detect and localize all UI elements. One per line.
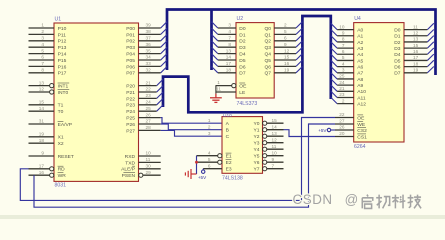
bus entries U2 Q0-Q7 — [296, 22, 302, 73]
svg-text:35: 35 — [146, 48, 152, 53]
svg-text:CSDN: CSDN — [293, 192, 333, 207]
svg-text:23: 23 — [146, 93, 152, 98]
svg-text:P17: P17 — [58, 71, 67, 77]
svg-text:P21: P21 — [126, 90, 135, 96]
U2 Q pin names — [264, 26, 271, 77]
bus entries P2.0-P2.4 to address bus — [157, 79, 163, 111]
svg-text:+5V: +5V — [318, 128, 327, 133]
U4 data pin wires — [404, 30, 427, 73]
svg-text:P11: P11 — [58, 32, 67, 38]
svg-text:A4: A4 — [357, 52, 363, 58]
svg-text:D0: D0 — [394, 28, 401, 34]
svg-text:10: 10 — [272, 150, 278, 155]
svg-text:8031: 8031 — [55, 183, 67, 189]
svg-text:13: 13 — [39, 80, 45, 85]
wire P2.7 to U10 C — [161, 130, 222, 136]
svg-text:TXD: TXD — [125, 160, 135, 166]
svg-text:CS1: CS1 — [357, 134, 367, 140]
svg-text:19: 19 — [284, 68, 290, 73]
svg-text:38: 38 — [146, 29, 152, 34]
svg-text:E1: E1 — [226, 154, 232, 160]
svg-text:4: 4 — [342, 61, 345, 66]
svg-text:27: 27 — [146, 119, 152, 124]
svg-text:P04: P04 — [126, 52, 135, 58]
svg-text:28: 28 — [146, 125, 152, 130]
svg-text:1: 1 — [41, 23, 44, 28]
svg-text:A9: A9 — [357, 83, 363, 89]
svg-text:12: 12 — [284, 48, 290, 53]
svg-text:12: 12 — [413, 30, 419, 35]
bottom band — [0, 215, 445, 219]
svg-text:Q7: Q7 — [264, 71, 271, 77]
wire U2 OE-LE tie — [215, 86, 217, 92]
svg-text:Q6: Q6 — [264, 64, 271, 70]
svg-text:P25: P25 — [126, 116, 135, 122]
svg-text:Q5: Q5 — [264, 58, 271, 64]
svg-text:Y1: Y1 — [254, 128, 260, 134]
svg-text:P15: P15 — [58, 58, 67, 64]
U10 Y pin numbers — [272, 118, 278, 168]
svg-text:1: 1 — [208, 118, 211, 123]
svg-text:Y2: Y2 — [254, 134, 260, 140]
svg-text:A11: A11 — [357, 95, 366, 101]
svg-text:D3: D3 — [394, 46, 401, 52]
svg-text:Q3: Q3 — [264, 45, 271, 51]
svg-text:P13: P13 — [58, 45, 67, 51]
svg-text:6: 6 — [208, 163, 211, 168]
U10 pin E3 — [203, 163, 232, 172]
svg-text:Q2: Q2 — [264, 39, 271, 45]
svg-text:15: 15 — [284, 55, 290, 60]
svg-text:Y0: Y0 — [254, 121, 260, 127]
label U1 part number 8031 — [55, 183, 67, 189]
svg-text:A1: A1 — [357, 34, 363, 40]
svg-text:26: 26 — [146, 112, 152, 117]
svg-text:U2: U2 — [237, 16, 244, 22]
svg-text:29: 29 — [146, 170, 152, 175]
svg-text:19: 19 — [39, 132, 45, 137]
svg-text:A3: A3 — [357, 46, 363, 52]
U2 Q pin numbers — [284, 23, 290, 73]
U4 control pin names — [357, 115, 367, 140]
U1 left pin numbers — [39, 23, 45, 175]
U4 data pin numbers — [413, 24, 419, 72]
svg-text:14: 14 — [39, 106, 45, 111]
svg-text:32: 32 — [146, 68, 152, 73]
U2 D pin numbers — [226, 23, 232, 73]
wire P2.5 to U10 A — [161, 118, 222, 124]
ground at U2 LE — [210, 92, 222, 102]
ground at U10 E1 E2 — [185, 169, 196, 179]
svg-text:A8: A8 — [357, 77, 363, 83]
svg-text:INT1: INT1 — [58, 84, 69, 90]
svg-text:33: 33 — [146, 61, 152, 66]
U2 Q pin wires — [274, 28, 296, 73]
svg-text:15: 15 — [413, 43, 419, 48]
svg-text:18: 18 — [226, 68, 232, 73]
label U4 refdes — [354, 16, 361, 22]
svg-text:16: 16 — [413, 49, 419, 54]
svg-text:LE: LE — [239, 90, 246, 96]
U2 pin LE — [216, 87, 247, 96]
svg-text:74LS138: 74LS138 — [222, 175, 243, 181]
watermark chinese char qi — [362, 195, 373, 209]
svg-text:D6: D6 — [394, 65, 401, 71]
svg-text:D3: D3 — [239, 45, 246, 51]
wire E1-E2 tie to ground — [196, 156, 198, 174]
svg-text:D7: D7 — [394, 71, 401, 77]
wire RD to 6264 OE — [20, 118, 335, 201]
svg-text:37: 37 — [146, 36, 152, 41]
label U4 part number 6264 — [354, 144, 366, 150]
watermark CSDN text — [293, 192, 359, 207]
label U1 refdes — [55, 17, 62, 23]
svg-text:P03: P03 — [126, 45, 135, 51]
svg-text:P14: P14 — [58, 52, 67, 58]
U4 data pin names — [394, 28, 401, 77]
svg-text:22: 22 — [146, 87, 152, 92]
svg-text:6: 6 — [41, 55, 44, 60]
svg-text:18: 18 — [413, 61, 419, 66]
svg-text:13: 13 — [226, 48, 232, 53]
power +5V at U10 E3 — [198, 169, 207, 180]
svg-text:27: 27 — [339, 119, 345, 124]
svg-text:8: 8 — [41, 68, 44, 73]
U1 right pin wires — [139, 28, 161, 177]
IC U4 6264 body — [354, 23, 404, 142]
svg-text:20: 20 — [339, 131, 345, 136]
bus entries U4 D0-D7 — [427, 23, 433, 72]
svg-text:19: 19 — [413, 67, 419, 72]
svg-text:D0: D0 — [239, 26, 246, 32]
svg-text:12: 12 — [272, 137, 278, 142]
svg-text:D4: D4 — [239, 52, 246, 58]
U4 address pin numbers — [339, 24, 345, 103]
svg-text:WR: WR — [58, 173, 67, 179]
U2 pin OE — [216, 80, 248, 89]
svg-text:4: 4 — [41, 42, 44, 47]
svg-text:7: 7 — [342, 43, 345, 48]
svg-text:D2: D2 — [394, 40, 401, 46]
svg-text:P01: P01 — [126, 32, 135, 38]
svg-text:7: 7 — [228, 36, 231, 41]
bus entries U2 D0-D7 — [212, 22, 218, 73]
svg-text:4: 4 — [208, 150, 211, 155]
svg-text:P23: P23 — [126, 103, 135, 109]
svg-text:18: 18 — [39, 138, 45, 143]
svg-text:4: 4 — [228, 29, 231, 34]
svg-text:T0: T0 — [58, 109, 64, 115]
svg-text:13: 13 — [272, 131, 278, 136]
label U2 refdes — [237, 16, 244, 22]
svg-text:7: 7 — [272, 163, 275, 168]
svg-text:16: 16 — [39, 170, 45, 175]
svg-text:9: 9 — [342, 30, 345, 35]
bus entries U4 A0-A12 — [331, 23, 337, 103]
svg-text:6: 6 — [284, 36, 287, 41]
svg-text:3: 3 — [228, 23, 231, 28]
U10 ABC pin numbers — [208, 118, 211, 136]
svg-text:23: 23 — [339, 92, 345, 97]
svg-text:Q4: Q4 — [264, 52, 271, 58]
watermark chinese char ke — [392, 195, 405, 209]
label U10 refdes — [223, 113, 232, 119]
U1 right pin names — [121, 26, 135, 179]
svg-text:Q1: Q1 — [264, 32, 271, 38]
svg-text:25: 25 — [146, 106, 152, 111]
svg-text:31: 31 — [39, 119, 45, 124]
svg-text:9: 9 — [284, 42, 287, 47]
svg-text:INT0: INT0 — [58, 90, 69, 96]
svg-text:17: 17 — [413, 55, 419, 60]
U1 left pin names — [58, 26, 74, 179]
U4 control pin wires — [335, 118, 354, 137]
svg-text:A2: A2 — [357, 40, 363, 46]
svg-text:5: 5 — [208, 157, 211, 162]
svg-text:9: 9 — [272, 157, 275, 162]
wire Y1 to 6264 CS1 — [284, 130, 336, 137]
watermark chinese char chu — [376, 195, 389, 209]
svg-text:P26: P26 — [126, 122, 135, 128]
svg-text:U10: U10 — [223, 113, 232, 119]
IC U1 8031 body — [54, 23, 139, 181]
svg-text:OE: OE — [357, 115, 365, 121]
svg-text:14: 14 — [272, 124, 278, 129]
svg-text:1: 1 — [217, 80, 220, 85]
svg-text:A0: A0 — [357, 28, 363, 34]
svg-text:36: 36 — [146, 42, 152, 47]
svg-text:E2: E2 — [226, 160, 232, 166]
svg-text:WE: WE — [357, 122, 366, 128]
wire P2.6 to U10 B — [161, 124, 222, 130]
U1 right pin numbers — [146, 23, 152, 175]
svg-text:15: 15 — [272, 118, 278, 123]
svg-text:22: 22 — [339, 112, 345, 117]
label U10 part number 74LS138 — [222, 175, 243, 181]
svg-text:15: 15 — [39, 100, 45, 105]
svg-text:T1: T1 — [58, 103, 64, 109]
svg-text:Y6: Y6 — [254, 160, 260, 166]
svg-text:B: B — [226, 128, 229, 134]
svg-text:21: 21 — [339, 86, 345, 91]
U10 pin E1 — [197, 150, 232, 159]
svg-text:C: C — [226, 134, 230, 140]
svg-text:P22: P22 — [126, 96, 135, 102]
svg-text:D7: D7 — [239, 71, 246, 77]
IC U10 74LS138 body — [222, 117, 263, 174]
U2 D pin names — [239, 26, 246, 77]
svg-text:X2: X2 — [58, 141, 64, 147]
U4 control pin numbers — [339, 112, 345, 136]
svg-text:3: 3 — [41, 36, 44, 41]
svg-text:E3: E3 — [226, 167, 232, 173]
svg-text:OE: OE — [239, 84, 247, 90]
svg-text:P05: P05 — [126, 58, 135, 64]
svg-text:D5: D5 — [239, 58, 246, 64]
svg-text:A7: A7 — [357, 71, 363, 77]
wire WR to 6264 WE — [34, 124, 335, 207]
U4 address pin names — [357, 28, 366, 108]
svg-text:39: 39 — [146, 23, 152, 28]
svg-text:11: 11 — [272, 144, 277, 149]
U4 address pin wires — [337, 30, 354, 104]
svg-text:RESET: RESET — [58, 154, 74, 160]
svg-text:U1: U1 — [55, 17, 62, 23]
svg-text:8: 8 — [228, 42, 231, 47]
svg-text:P12: P12 — [58, 39, 67, 45]
svg-text:6: 6 — [342, 49, 345, 54]
svg-text:8: 8 — [342, 37, 345, 42]
watermark chinese char ji — [408, 195, 421, 209]
svg-text:2: 2 — [284, 23, 287, 28]
svg-text:U4: U4 — [354, 16, 361, 22]
svg-text:5: 5 — [342, 55, 345, 60]
svg-text:24: 24 — [339, 80, 345, 85]
svg-text:A5: A5 — [357, 58, 363, 64]
svg-text:5: 5 — [41, 48, 44, 53]
svg-text:26: 26 — [339, 125, 345, 130]
svg-text:Y3: Y3 — [254, 141, 260, 147]
svg-text:A12: A12 — [357, 102, 366, 108]
svg-text:D5: D5 — [394, 58, 401, 64]
svg-text:10: 10 — [339, 24, 345, 29]
svg-text:D2: D2 — [239, 39, 246, 45]
svg-text:P07: P07 — [126, 71, 135, 77]
svg-text:D1: D1 — [239, 32, 246, 38]
svg-text:P06: P06 — [126, 64, 135, 70]
svg-text:16: 16 — [284, 61, 290, 66]
svg-text:+5V: +5V — [198, 175, 207, 180]
U10 ABC pin names — [226, 121, 230, 140]
svg-text:7: 7 — [41, 61, 44, 66]
svg-text:24: 24 — [146, 100, 152, 105]
svg-text:Y7: Y7 — [254, 167, 260, 173]
svg-text:14: 14 — [226, 55, 232, 60]
svg-text:21: 21 — [146, 80, 152, 85]
svg-text:5: 5 — [284, 29, 287, 34]
svg-text:P00: P00 — [126, 26, 135, 32]
svg-text:2: 2 — [41, 29, 44, 34]
svg-text:13: 13 — [413, 37, 419, 42]
svg-text:P20: P20 — [126, 84, 135, 90]
svg-text:P02: P02 — [126, 39, 135, 45]
label U2 part number 74LS373 — [237, 101, 258, 107]
svg-text:D4: D4 — [394, 52, 401, 58]
bus entries P0.0-P0.7 to data bus — [161, 22, 167, 73]
junction dot at E2 — [195, 161, 198, 164]
svg-text:D6: D6 — [239, 64, 246, 70]
svg-text:10: 10 — [146, 151, 152, 156]
svg-text:Y4: Y4 — [254, 147, 260, 153]
U10 Y pin names — [254, 121, 260, 173]
svg-text:A6: A6 — [357, 65, 363, 71]
svg-text:9: 9 — [41, 151, 44, 156]
svg-text:A10: A10 — [357, 89, 366, 95]
svg-text:17: 17 — [226, 61, 232, 66]
power +5V at U4 CS2 — [318, 128, 335, 133]
svg-text:@: @ — [345, 192, 359, 207]
svg-text:D1: D1 — [394, 34, 401, 40]
svg-text:P24: P24 — [126, 109, 135, 115]
svg-text:6264: 6264 — [354, 144, 366, 150]
svg-text:P10: P10 — [58, 26, 67, 32]
svg-text:P27: P27 — [126, 128, 135, 134]
IC U2 74LS373 body — [236, 23, 274, 98]
bus DB data bus P0 vertical + top rail + branches — [167, 10, 436, 76]
svg-text:CS2: CS2 — [357, 128, 367, 134]
bus AB address bus — [163, 16, 331, 112]
svg-text:17: 17 — [39, 164, 45, 169]
svg-text:RD: RD — [58, 167, 66, 173]
svg-text:Q0: Q0 — [264, 26, 271, 32]
svg-text:11: 11 — [413, 24, 418, 29]
svg-text:11: 11 — [216, 87, 221, 92]
svg-text:74LS373: 74LS373 — [237, 101, 258, 107]
U10 pin E2 — [197, 157, 232, 166]
svg-text:RXD: RXD — [125, 154, 136, 160]
svg-text:EA/VP: EA/VP — [58, 122, 72, 128]
svg-text:PSEN: PSEN — [122, 173, 136, 179]
svg-text:P16: P16 — [58, 64, 67, 70]
svg-text:2: 2 — [208, 124, 211, 129]
svg-text:Y5: Y5 — [254, 154, 260, 160]
svg-text:ALE/P: ALE/P — [121, 167, 135, 173]
svg-text:30: 30 — [146, 164, 152, 169]
svg-text:34: 34 — [146, 55, 152, 60]
svg-text:3: 3 — [208, 131, 211, 136]
svg-text:11: 11 — [146, 157, 151, 162]
U10 Y pin wires — [263, 121, 284, 171]
svg-text:25: 25 — [339, 74, 345, 79]
U1 left pin wires — [29, 28, 55, 177]
svg-text:12: 12 — [39, 87, 45, 92]
svg-text:3: 3 — [342, 67, 345, 72]
svg-text:X1: X1 — [58, 135, 64, 141]
svg-text:2: 2 — [342, 98, 345, 103]
U2 D pin wires — [218, 28, 236, 73]
